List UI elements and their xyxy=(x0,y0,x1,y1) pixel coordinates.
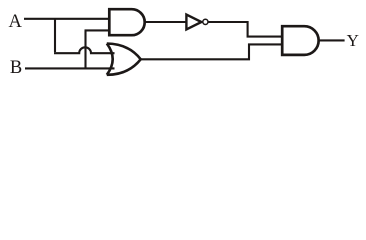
svg-text:Y: Y xyxy=(347,31,359,50)
NOT gate U2 bubble xyxy=(203,19,208,24)
wire: AND2 output to Y xyxy=(318,39,345,41)
wire: A branch horizontal to OR1 top input, with hop over B branch xyxy=(54,47,115,53)
wire: B branch horizontal to AND1 bottom input xyxy=(85,29,110,31)
AND gate U4 xyxy=(282,26,318,55)
wire: OR output to AND2 bottom input xyxy=(140,44,282,59)
svg-text:A: A xyxy=(9,12,23,32)
wire: input B to OR1 bottom input xyxy=(25,67,115,69)
wire: A branch vertical drop at node x=55 xyxy=(54,19,56,52)
wire: B branch vertical rise at node x=85.5 xyxy=(84,30,86,68)
NOT gate U2 triangle xyxy=(186,15,201,30)
wire: AND1 output to NOT input xyxy=(144,21,186,23)
OR gate U3 xyxy=(107,44,141,75)
AND gate U1 xyxy=(109,9,144,35)
wire: input A to AND1 top input xyxy=(24,18,109,20)
wire: NOT output to AND2 top input xyxy=(208,22,282,37)
svg-text:B: B xyxy=(10,58,22,78)
